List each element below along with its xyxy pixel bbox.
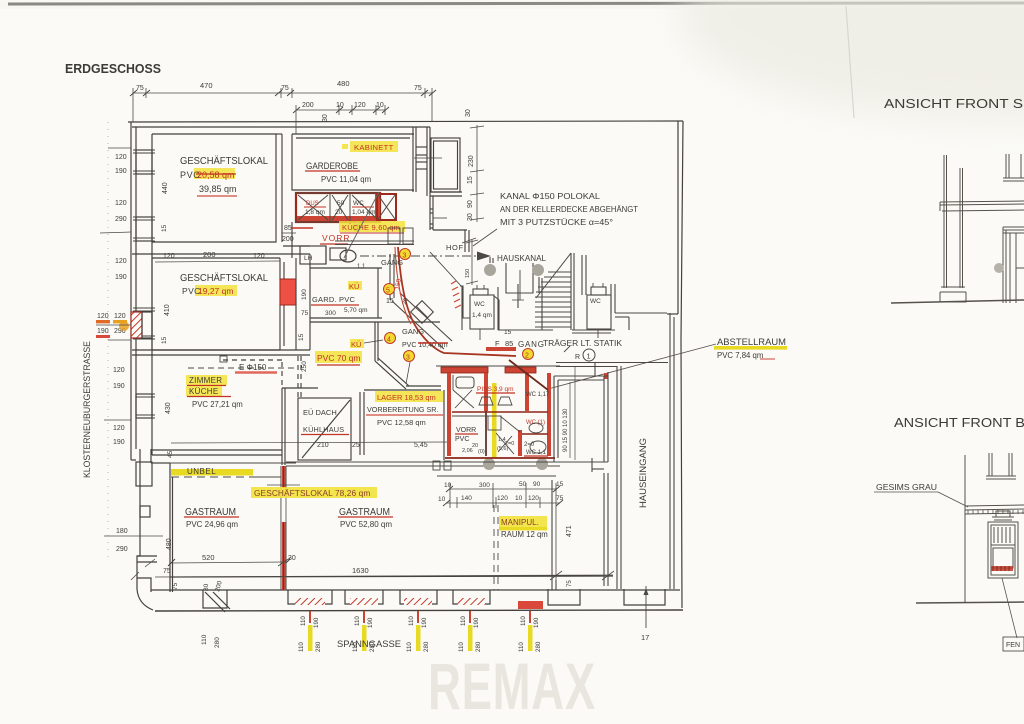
svg-text:110: 110 (518, 642, 525, 652)
svg-text:120: 120 (253, 253, 265, 260)
staircase steps (548, 271, 571, 273)
svg-text:KANAL Φ150 POLOKAL: KANAL Φ150 POLOKAL (500, 192, 601, 201)
svg-text:30: 30 (467, 213, 474, 221)
svg-text:LH: LH (304, 255, 313, 262)
left wall pier 5 (136, 462, 152, 486)
svg-text:190: 190 (115, 168, 127, 175)
room GESCHAEFTSLOKAL 2 box (152, 258, 280, 350)
svg-text:280: 280 (423, 641, 430, 652)
svg-text:PVC 24,96 qm: PVC 24,96 qm (186, 520, 238, 529)
svg-text:1,8 qm: 1,8 qm (305, 209, 325, 216)
svg-text:WC: WC (474, 301, 485, 308)
room GARDEROBE box (292, 134, 414, 190)
top dimension row 1 (133, 88, 432, 134)
pointer line abstellraum (548, 344, 716, 389)
svg-text:290: 290 (116, 546, 128, 553)
svg-text:1,04 qm: 1,04 qm (352, 209, 376, 216)
abstellraum inner dim line (569, 382, 571, 458)
svg-text:75: 75 (414, 85, 422, 92)
bottom pilaster bump 2 (345, 590, 383, 604)
bottom pilaster bump 1 (288, 590, 332, 604)
svg-text:10: 10 (336, 102, 344, 109)
label LAGER yellow (375, 391, 443, 402)
svg-text:VORBEREITUNG SR.: VORBEREITUNG SR. (367, 405, 439, 414)
svg-text:471: 471 (566, 525, 573, 537)
svg-text:75: 75 (281, 85, 289, 92)
wall: bottom outer double (151, 589, 680, 591)
corridor wall under bath (283, 245, 310, 247)
svg-text:120: 120 (497, 495, 508, 502)
gastraum west wall (150, 449, 152, 463)
svg-text:1,4 qm: 1,4 qm (472, 312, 492, 319)
svg-text:WC 1,17: WC 1,17 (526, 392, 550, 398)
hauseingang corridor walls (556, 363, 668, 590)
svg-text:110: 110 (300, 616, 307, 626)
svg-text:KABINETT: KABINETT (354, 143, 394, 152)
elevation2 dentil cornice (965, 505, 1024, 506)
svg-text:280: 280 (214, 637, 221, 648)
label UNBEL (151, 462, 296, 464)
red shaft cell (377, 194, 396, 220)
svg-text:480: 480 (166, 538, 173, 550)
wall: left outer double (130, 122, 132, 460)
svg-text:25: 25 (352, 442, 360, 449)
svg-text:120: 120 (114, 313, 126, 320)
svg-text:300: 300 (479, 482, 490, 489)
svg-text:EÜ DACH: EÜ DACH (303, 408, 337, 417)
WC cluster (436, 360, 608, 462)
svg-text:3: 3 (406, 355, 410, 362)
svg-text:110: 110 (520, 616, 527, 626)
bottom cluster 2 (352, 611, 376, 652)
svg-text:210: 210 (317, 442, 329, 449)
bath strip red outer (296, 193, 380, 222)
bottom cluster 1 (298, 611, 322, 652)
wall lager left (374, 322, 376, 361)
svg-text:PVC 70 qm: PVC 70 qm (317, 353, 360, 363)
svg-text:20: 20 (335, 209, 343, 216)
svg-text:110: 110 (298, 642, 305, 652)
arrow 17 (645, 586, 647, 628)
svg-text:1: 1 (587, 352, 591, 361)
svg-text:GANG: GANG (381, 258, 403, 267)
svg-text:5,70 qm: 5,70 qm (344, 307, 368, 314)
wc right box (587, 295, 611, 329)
svg-text:PVC 52,80 qm: PVC 52,80 qm (340, 520, 392, 529)
svg-text:110: 110 (406, 642, 413, 652)
svg-text:75: 75 (567, 580, 573, 587)
svg-text:440: 440 (162, 182, 169, 194)
window recess kabinett wall (416, 146, 427, 148)
transom bars (994, 527, 1010, 543)
yellow strip (492, 383, 497, 458)
door red block room2 (280, 279, 296, 305)
svg-text:KÜCHE: KÜCHE (189, 387, 219, 396)
gray duct circle kueche (352, 222, 362, 232)
circled 4 yellow (385, 333, 396, 344)
svg-text:75: 75 (136, 85, 144, 92)
label MANIPUL yellow (499, 516, 547, 527)
diagonal annotation stroke bath (344, 192, 379, 258)
label KUE yellow small (348, 281, 362, 290)
svg-text:ANSICHT FRONT B: ANSICHT FRONT B (894, 416, 1024, 430)
svg-text:2: 2 (525, 353, 529, 360)
bottom pilaster bump 5 entrance (624, 589, 665, 605)
svg-text:200: 200 (203, 250, 216, 259)
svg-text:110: 110 (458, 642, 465, 652)
svg-text:190: 190 (313, 617, 320, 628)
svg-text:R: R (575, 354, 580, 361)
elevation1 cornice (940, 201, 1024, 202)
svg-text:190: 190 (367, 617, 374, 628)
svg-text:280: 280 (315, 641, 322, 652)
svg-text:75: 75 (163, 568, 171, 575)
label PVC 70 qm yellow (315, 351, 362, 363)
pointer KU to 4 (364, 340, 383, 343)
svg-text:15: 15 (298, 333, 305, 341)
left wall window ticks (133, 150, 155, 418)
svg-text:PVC 7,84 qm: PVC 7,84 qm (717, 351, 763, 360)
svg-text:75: 75 (172, 582, 179, 590)
svg-text:190: 190 (473, 617, 480, 628)
svg-text:FEN: FEN (1006, 642, 1020, 649)
room row2 top wall (132, 253, 310, 255)
main pane (993, 548, 1013, 568)
dashed partition manipul (493, 505, 495, 590)
svg-text:15: 15 (504, 329, 512, 336)
label KABINETT yellow (350, 141, 398, 152)
bottom pilaster bump 3 (400, 590, 437, 604)
label KUECHE yellow (339, 221, 405, 232)
label GESCHAEFTSLOKAL 78,26 yellow (251, 487, 377, 498)
svg-text:PVC: PVC (455, 436, 469, 443)
small room LH top (300, 246, 326, 264)
svg-text:WC: WC (590, 298, 601, 305)
wall: top outer (building) (128, 121, 683, 122)
svg-text:90: 90 (467, 200, 474, 208)
wall manipul right (551, 480, 553, 590)
svg-text:200: 200 (302, 102, 314, 109)
svg-text:190: 190 (421, 617, 428, 628)
wall: left inner room line (151, 134, 153, 455)
inner horizontal walls (452, 411, 548, 413)
elevation1 pilaster (943, 155, 945, 288)
svg-text:120: 120 (97, 313, 109, 320)
svg-text:280: 280 (535, 641, 542, 652)
room GESCHAEFTSLOKAL 1 box (152, 134, 276, 242)
wall row2 bottom (132, 349, 310, 351)
svg-text:(0): (0) (478, 449, 485, 455)
svg-text:120: 120 (113, 367, 125, 374)
svg-text:RAUM 12 qm: RAUM 12 qm (501, 530, 548, 539)
circled 5 yellow (384, 284, 395, 295)
svg-text:3: 3 (403, 253, 407, 260)
svg-text:PVC 12,58 qm: PVC 12,58 qm (377, 418, 426, 427)
red partition wall gastraum (280, 466, 282, 590)
left dim tick lines (96, 148, 163, 536)
red solid strip 5 (518, 601, 543, 609)
red hatch strip bump2 (350, 598, 378, 605)
elevation1 door (1002, 227, 1004, 303)
elevation1 ground (891, 300, 1024, 303)
svg-text:GANG: GANG (518, 340, 545, 349)
svg-text:TRÄGER LT. STATIK: TRÄGER LT. STATIK (543, 339, 623, 348)
traeger dim ticks (564, 346, 570, 352)
svg-text:250: 250 (301, 361, 308, 372)
svg-text:120: 120 (115, 258, 127, 265)
svg-text:90: 90 (533, 481, 541, 488)
svg-text:120: 120 (528, 495, 539, 502)
wc left box (470, 295, 494, 329)
svg-text:15: 15 (161, 336, 168, 344)
svg-text:45: 45 (167, 450, 174, 458)
svg-text:120: 120 (115, 154, 127, 161)
gard corridor walls (295, 258, 297, 350)
svg-text:75: 75 (556, 495, 564, 502)
wall: right outer boundary (681, 121, 683, 608)
svg-text:DUS: DUS (306, 201, 319, 207)
svg-text:PVC 27,21 qm: PVC 27,21 qm (192, 400, 243, 409)
wall rooms mid (281, 388, 283, 465)
bottom cluster 5 (518, 611, 542, 652)
svg-text:GASTRAUM: GASTRAUM (339, 507, 390, 518)
red hatch strip bump1 (295, 598, 325, 605)
label FEN box (1003, 637, 1024, 651)
svg-text:MIT 3 PUTZSTÜCKE α=45°: MIT 3 PUTZSTÜCKE α=45° (500, 218, 613, 227)
svg-text:SPANNGASSE: SPANNGASSE (337, 639, 401, 650)
red hatch strip bump4 (457, 598, 485, 605)
svg-text:HAUSEINGANG: HAUSEINGANG (638, 438, 648, 508)
svg-text:5,45: 5,45 (414, 442, 428, 449)
orange dot on wall (119, 321, 129, 331)
elevation2 ground (916, 602, 1024, 603)
gray ducts bottom wall (483, 458, 495, 470)
svg-text:2=0: 2=0 (505, 441, 514, 447)
svg-text:120: 120 (354, 102, 366, 109)
svg-text:LAGER 18,53 qm: LAGER 18,53 qm (377, 393, 436, 402)
svg-text:WC: WC (353, 200, 364, 207)
center dim rows (446, 483, 560, 580)
svg-text:ANSICHT FRONT S: ANSICHT FRONT S (884, 97, 1023, 111)
svg-text:75: 75 (301, 310, 309, 317)
svg-text:20,58 qm: 20,58 qm (197, 170, 235, 180)
label KUE2 yellow (350, 339, 364, 348)
center hall walls (497, 287, 499, 330)
svg-text:15: 15 (161, 224, 168, 232)
svg-text:190: 190 (533, 617, 540, 628)
red hatch diagonal wall (451, 281, 461, 308)
svg-text:15: 15 (556, 481, 564, 488)
circled 2 yellow (523, 349, 534, 360)
svg-text:120: 120 (163, 253, 175, 260)
svg-text:480: 480 (337, 79, 350, 88)
elevation2 top window (988, 453, 990, 476)
circled 1 white (583, 349, 595, 361)
svg-text:120: 120 (113, 425, 125, 432)
svg-text:AN DER KELLERDECKE ABGEHÄNGT: AN DER KELLERDECKE ABGEHÄNGT (500, 205, 638, 214)
svg-text:290: 290 (115, 216, 127, 223)
svg-text:190: 190 (301, 289, 308, 300)
bay window top right (431, 138, 460, 192)
red vertical walls (447, 373, 451, 456)
svg-text:4: 4 (387, 337, 391, 344)
svg-text:50: 50 (337, 200, 345, 207)
bottom wall hatch box with diagonal (203, 590, 227, 608)
hof 40 tick (462, 238, 476, 243)
svg-text:280: 280 (475, 641, 482, 652)
svg-text:200: 200 (282, 236, 294, 243)
right top boundary wall verticals (426, 127, 428, 196)
red kanal pipe (398, 247, 516, 356)
circled 3b yellow (404, 351, 415, 362)
dashed wall zimmer (188, 367, 296, 369)
svg-text:2=0: 2=0 (524, 442, 535, 448)
wall line south of cluster (437, 475, 556, 477)
svg-text:110: 110 (408, 616, 415, 626)
room KUEHLHAUS box (298, 398, 351, 460)
svg-text:HAUSKANAL: HAUSKANAL (497, 253, 546, 263)
gang diagonal walls (392, 301, 444, 349)
door gap in red partition (281, 488, 287, 522)
window recess lower right wall (430, 208, 433, 210)
svg-text:190: 190 (113, 383, 125, 390)
svg-text:80: 80 (203, 583, 210, 591)
svg-text:GANG: GANG (402, 327, 424, 336)
svg-text:PVC 11,04 qm: PVC 11,04 qm (321, 175, 371, 184)
hof vertical dim (471, 240, 473, 285)
svg-text:150: 150 (465, 269, 471, 278)
left street dash line (107, 122, 109, 560)
svg-text:190: 190 (113, 439, 125, 446)
svg-text:KLOSTERNEUBURGERSTRASSE: KLOSTERNEUBURGERSTRASSE (82, 341, 93, 478)
upper-right boundary inner wall (610, 284, 612, 313)
elevation2 shop window pediment (992, 516, 1014, 518)
svg-text:KÜ: KÜ (351, 340, 361, 349)
staircase diagonal (536, 253, 571, 298)
svg-text:5: 5 (386, 288, 390, 295)
wall gastraum top (286, 461, 560, 463)
bottom pilaster bump 4 (453, 590, 490, 604)
duct stems (489, 257, 491, 263)
svg-text:110: 110 (354, 616, 361, 626)
svg-text:1,1: 1,1 (357, 264, 366, 270)
svg-text:GESCHÄFTSLOKAL 78,26 qm: GESCHÄFTSLOKAL 78,26 qm (254, 488, 370, 498)
svg-text:15: 15 (467, 176, 474, 184)
diagonal annotation stroke kanal (473, 229, 497, 246)
svg-text:85: 85 (505, 339, 513, 348)
elevation1 door gray (994, 263, 1004, 273)
svg-text:180: 180 (116, 528, 128, 535)
svg-text:ZIMMER: ZIMMER (189, 376, 222, 385)
svg-text:GESCHÄFTSLOKAL: GESCHÄFTSLOKAL (180, 155, 268, 167)
svg-text:110: 110 (201, 634, 208, 645)
label ZIMMER KUECHE (186, 375, 227, 385)
left wall pier small (140, 506, 150, 517)
svg-text:UNBEL: UNBEL (187, 467, 216, 476)
svg-text:10: 10 (515, 495, 523, 502)
bottom cluster 3 (406, 611, 430, 652)
right vertical dim (470, 125, 484, 222)
svg-text:REMAX: REMAX (428, 651, 596, 724)
gray duct circles (484, 264, 496, 276)
sink fixture (330, 248, 346, 260)
staircase rails (541, 278, 543, 330)
elevation2 shop window frame (988, 522, 1018, 578)
svg-text:KÜHLHAUS: KÜHLHAUS (303, 425, 344, 434)
svg-text:300: 300 (325, 310, 336, 317)
kueche corridor fixtures (388, 228, 400, 244)
hof dash-dot line (360, 255, 480, 257)
svg-text:110: 110 (460, 616, 467, 626)
bath diagonals (298, 195, 328, 220)
svg-text:90 15 90 10 130: 90 15 90 10 130 (563, 408, 569, 452)
svg-text:17: 17 (641, 633, 649, 642)
red marks shop window base (991, 566, 1013, 571)
left wall pier red hatch (131, 312, 142, 338)
svg-text:10: 10 (444, 482, 452, 489)
svg-text:190: 190 (115, 274, 127, 281)
svg-text:39,85 qm: 39,85 qm (199, 184, 237, 194)
svg-text:GARDEROBE: GARDEROBE (306, 161, 358, 172)
bottom dims (171, 562, 287, 563)
svg-text:190: 190 (97, 328, 109, 335)
bottom cluster 4 (458, 611, 482, 652)
urinal arches (479, 397, 512, 405)
svg-text:PISS 3,9 qm: PISS 3,9 qm (477, 386, 514, 393)
svg-text:10: 10 (376, 102, 384, 109)
svg-text:HOF: HOF (446, 243, 464, 252)
diagonals upper-left cell (456, 377, 474, 388)
svg-text:430: 430 (165, 402, 172, 414)
svg-text:F: F (495, 339, 500, 348)
dim tick slashes (130, 90, 563, 566)
pointer to FEN box (1002, 578, 1017, 638)
svg-text:470: 470 (200, 81, 213, 90)
circled 3 yellow top (400, 249, 411, 260)
svg-text:ERDGESCHOSS: ERDGESCHOSS (65, 61, 161, 76)
vestibule wall (591, 458, 593, 472)
wall: bottom ground line (155, 610, 683, 611)
svg-text:19,27 qm: 19,27 qm (198, 286, 233, 296)
svg-text:1630: 1630 (352, 566, 369, 575)
svg-text:GASTRAUM: GASTRAUM (185, 507, 236, 518)
svg-text:15: 15 (386, 298, 394, 305)
svg-text:ABSTELLRAUM: ABSTELLRAUM (717, 337, 786, 347)
wall: bottom-left corner steps (137, 556, 151, 592)
red top wall bars (441, 367, 488, 373)
svg-text:KÜCHE 9,60 qm: KÜCHE 9,60 qm (342, 223, 400, 232)
svg-text:GARD. PVC: GARD. PVC (312, 295, 355, 304)
svg-text:230: 230 (468, 155, 475, 167)
svg-text:E Φ150: E Φ150 (239, 363, 267, 372)
svg-text:140: 140 (461, 495, 472, 502)
svg-text:10: 10 (438, 496, 446, 503)
elevation2 wall left (964, 455, 966, 602)
scan tint top right (680, 0, 1024, 120)
svg-text:MANIPUL.: MANIPUL. (501, 518, 539, 527)
svg-text:520: 520 (202, 553, 215, 562)
svg-text:30: 30 (465, 109, 472, 117)
svg-text:VORR: VORR (456, 427, 476, 434)
elevation1 top window (1005, 154, 1007, 178)
red hatch strip bump3 (404, 598, 432, 605)
svg-text:30: 30 (322, 114, 329, 122)
svg-text:GESCHÄFTSLOKAL: GESCHÄFTSLOKAL (180, 272, 268, 284)
left wall pier 2 (136, 217, 152, 241)
dark diagonal traverse (509, 360, 548, 390)
gang top walls (335, 240, 414, 242)
svg-text:85: 85 (284, 225, 292, 232)
